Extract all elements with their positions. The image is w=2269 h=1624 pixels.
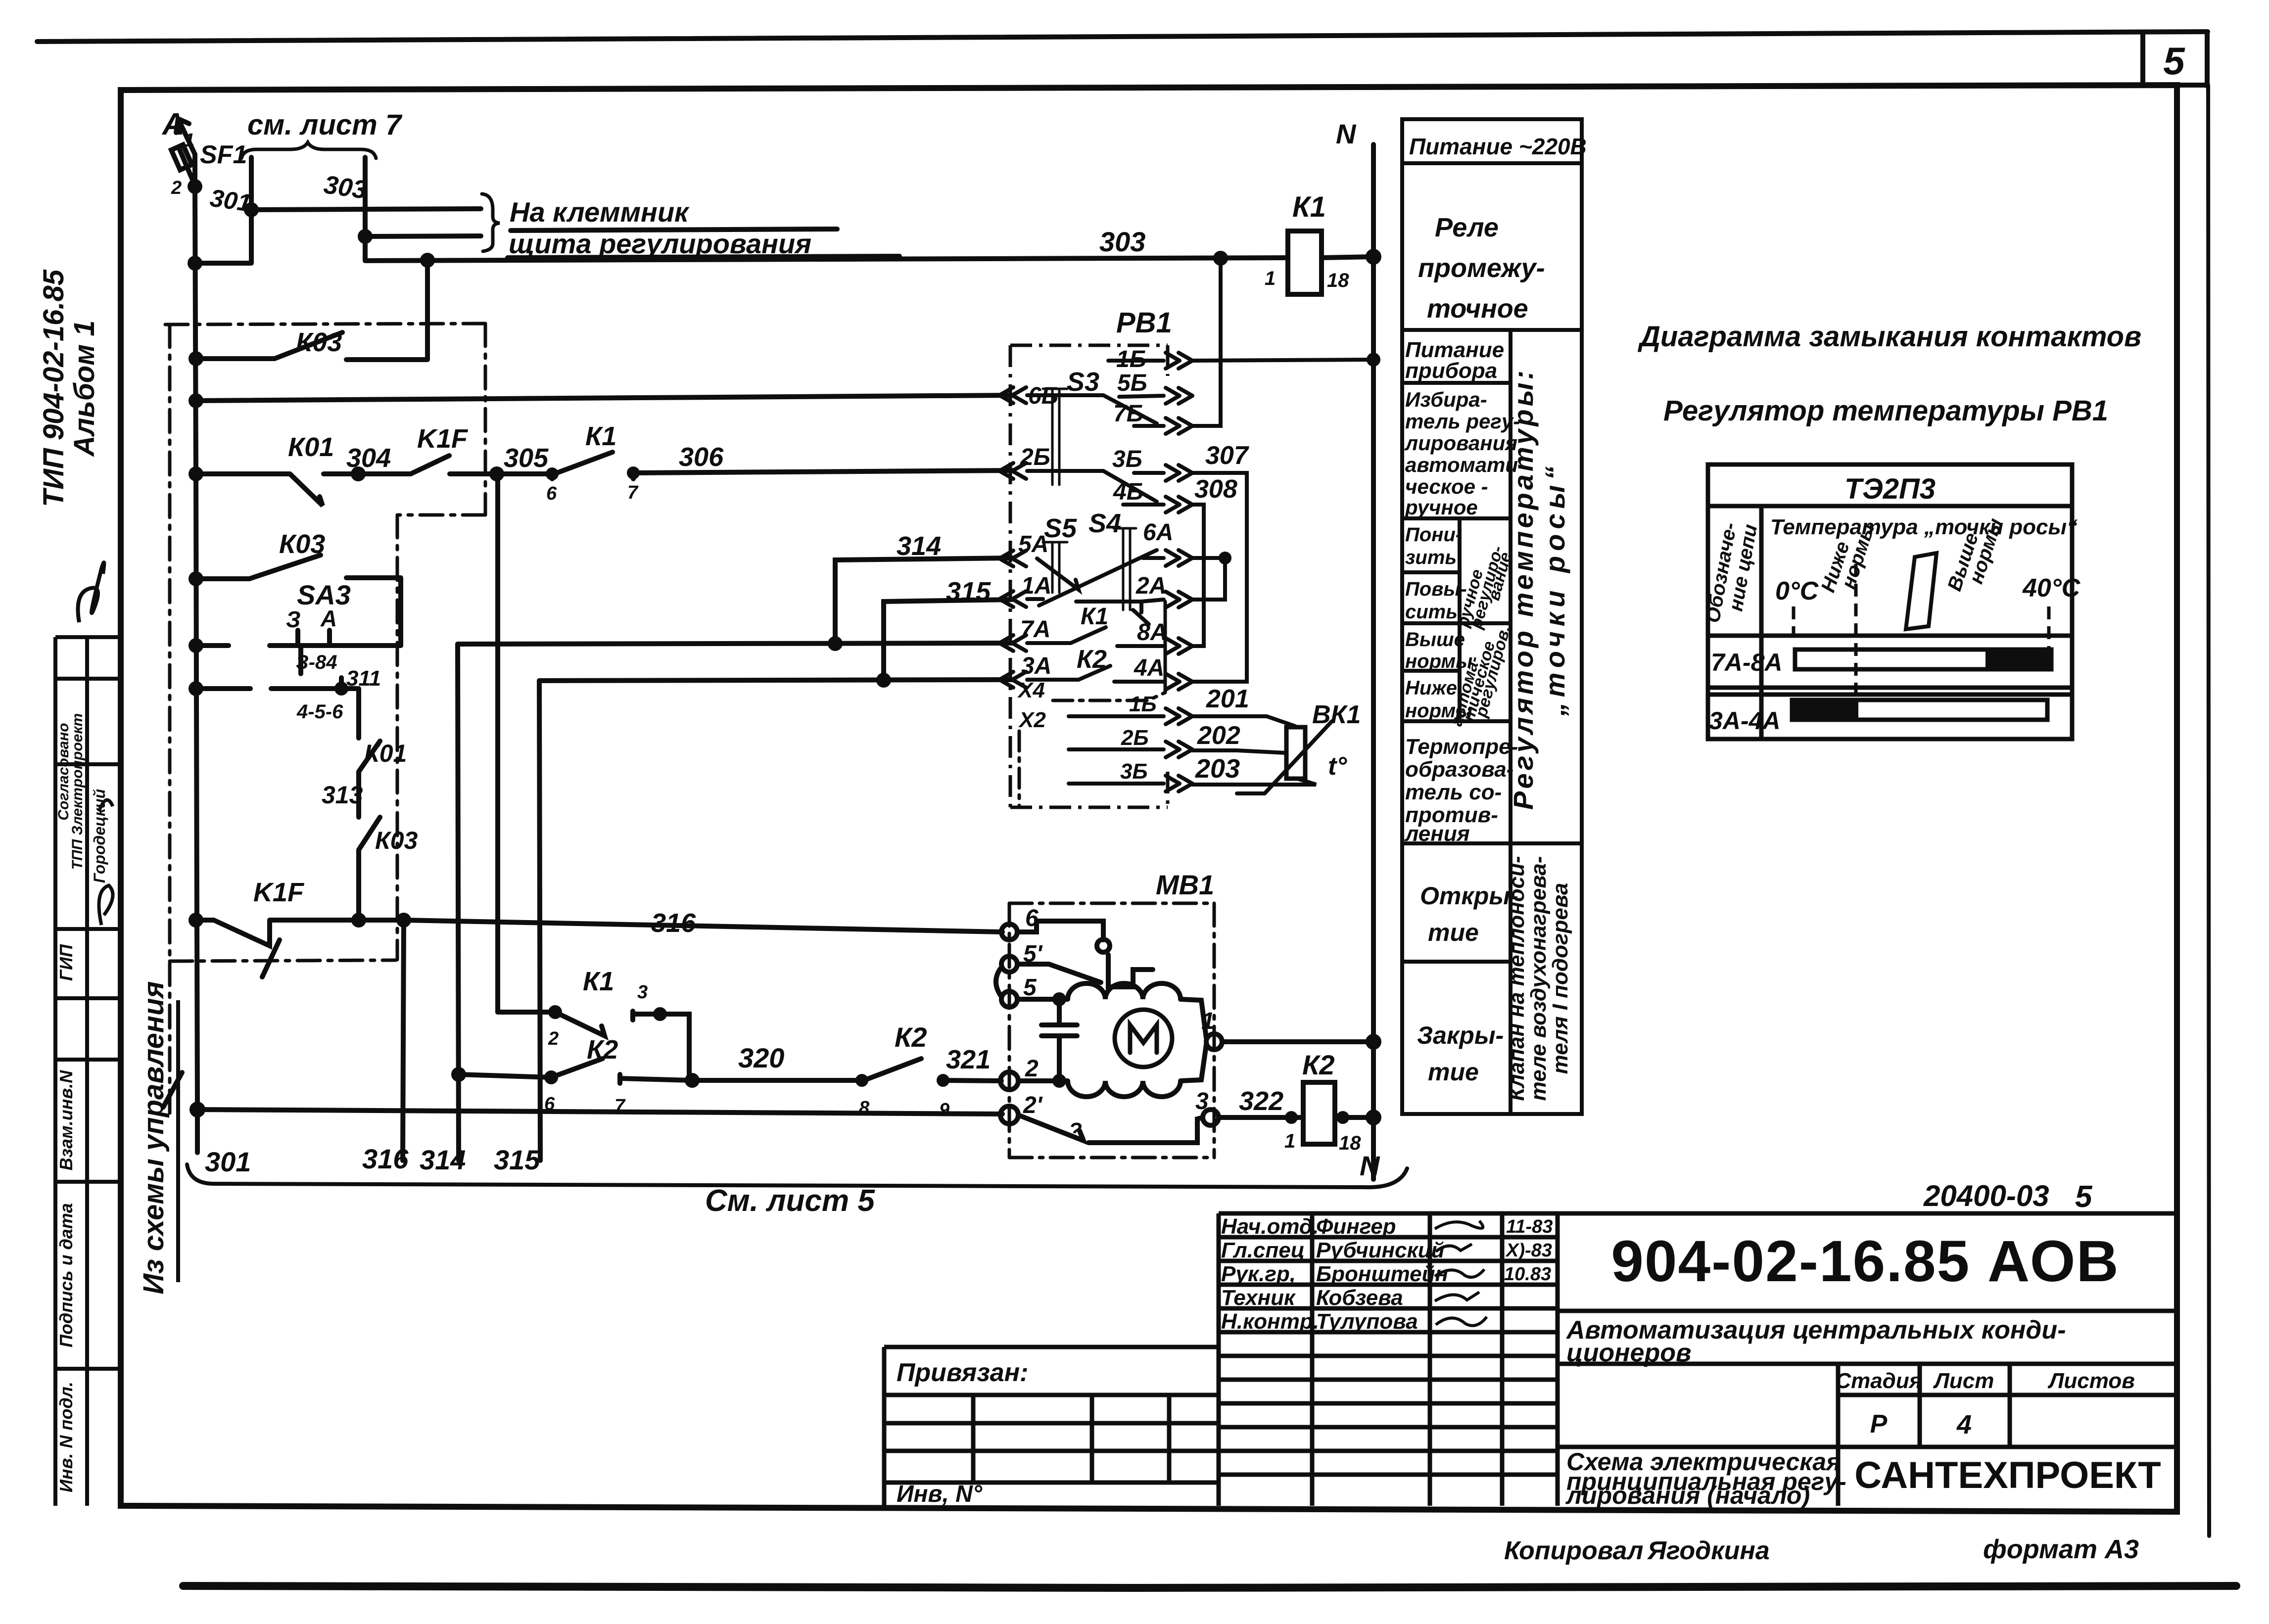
- motor M: [1115, 1010, 1172, 1067]
- svg-text:тель регу-: тель регу-: [1405, 410, 1520, 433]
- svg-text:306: 306: [679, 442, 724, 472]
- switch lower section of S3: [1027, 471, 1164, 505]
- svg-text:313: 313: [322, 781, 363, 809]
- winding upper: [1017, 983, 1206, 1038]
- rotated note: Из схемы управления: [138, 981, 178, 1294]
- underline wire for annotation line1: [511, 229, 837, 231]
- svg-text:202: 202: [1197, 721, 1240, 750]
- svg-text:N: N: [1360, 1150, 1380, 1181]
- wire terminal1 to N: [1222, 1039, 1373, 1044]
- left stamp signature scribbles: [99, 800, 113, 925]
- svg-text:Инв. N подл.: Инв. N подл.: [56, 1382, 76, 1492]
- svg-text:прибора: прибора: [1405, 359, 1497, 383]
- names column texts: [1221, 1214, 1448, 1334]
- svg-text:А: А: [320, 605, 337, 631]
- svg-text:Городецкий: Городецкий: [91, 789, 108, 883]
- svg-text:тие: тие: [1428, 919, 1479, 946]
- external loop 6А-2А: [1192, 558, 1225, 600]
- sheet number box top-right: [2143, 32, 2207, 86]
- connector X4 dash-dot: [1053, 693, 1165, 700]
- svg-text:322: 322: [1239, 1086, 1283, 1116]
- svg-text:315: 315: [946, 577, 991, 606]
- svg-text:Термопре-: Термопре-: [1405, 735, 1518, 759]
- terminal 3: [1203, 1110, 1219, 1125]
- contact K1F on lower wire: [196, 920, 404, 946]
- svg-text:5Б: 5Б: [1117, 370, 1147, 396]
- left margin handwriting scribble: [78, 562, 104, 622]
- svg-text:промежу-: промежу-: [1418, 253, 1545, 283]
- svg-text:8: 8: [859, 1098, 870, 1118]
- bottom return wire to MV1: [197, 1110, 1002, 1114]
- svg-text:К2: К2: [587, 1035, 618, 1065]
- svg-text:Закры-: Закры-: [1417, 1021, 1504, 1049]
- PB1 right terminal arrow: [1166, 742, 1192, 757]
- svg-text:См. лист 5: См. лист 5: [705, 1184, 875, 1218]
- svg-text:314: 314: [420, 1144, 466, 1175]
- svg-text:ВК1: ВК1: [1312, 700, 1361, 729]
- svg-text:Х4: Х4: [1017, 678, 1045, 702]
- svg-text:311: 311: [346, 666, 381, 691]
- contact K03 (1): [196, 261, 427, 360]
- svg-text:1: 1: [1284, 1130, 1295, 1152]
- drawing frame: [121, 85, 2177, 1512]
- external loop 307 (3Б-4А): [1192, 473, 1247, 682]
- axis ticks: [1794, 564, 2049, 722]
- svg-text:6А: 6А: [1143, 519, 1173, 546]
- svg-text:На клеммник: На клеммник: [510, 196, 690, 228]
- svg-text:Регулятор температуры:: Регулятор температуры:: [1508, 368, 1539, 810]
- changeover blade 1А-6А: [1039, 550, 1157, 605]
- PB1 right terminal arrow: [1166, 497, 1192, 512]
- PB1 right terminal arrow: [1166, 353, 1192, 369]
- winding lower: [1018, 1045, 1206, 1097]
- PB1 left terminal arrow: [999, 463, 1026, 479]
- svg-text:t°: t°: [1328, 752, 1347, 781]
- PB1 right terminal arrow: [1166, 418, 1192, 434]
- blade S4 to 8А: [1133, 610, 1149, 624]
- svg-text:3А: 3А: [1021, 653, 1051, 679]
- svg-text:Избира-: Избира-: [1405, 388, 1487, 411]
- svg-text:Н.контр.: Н.контр.: [1221, 1309, 1319, 1334]
- wire 304 with contact K01: [196, 474, 411, 506]
- svg-text:8А: 8А: [1137, 619, 1167, 646]
- svg-text:Диаграмма замыкания контактов: Диаграмма замыкания контактов: [1637, 321, 2141, 353]
- terminal 5: [1001, 991, 1017, 1007]
- underline wire for annotation line2: [508, 256, 899, 258]
- svg-text:Бронштейн: Бронштейн: [1316, 1262, 1448, 1286]
- svg-text:К2: К2: [895, 1021, 927, 1053]
- motor block MV1 dash-dot box: [1009, 903, 1214, 1158]
- page right border: [2208, 85, 2209, 1536]
- wire to terminal strip (upper): [251, 209, 481, 210]
- wire to contact K2 (lower chain): [459, 1059, 692, 1083]
- svg-text:3Б: 3Б: [1120, 759, 1148, 784]
- svg-text:Техник: Техник: [1221, 1286, 1296, 1310]
- wire 320: [692, 1078, 862, 1083]
- PB1 left terminal arrow: [999, 672, 1026, 688]
- svg-text:ТЭ2П3: ТЭ2П3: [1844, 473, 1936, 505]
- external wire 1Б to N: [1192, 360, 1373, 361]
- PB1 left terminal arrow: [999, 591, 1026, 607]
- svg-text:ручное: ручное: [1405, 496, 1478, 519]
- svg-text:308: 308: [1194, 475, 1237, 504]
- svg-text:образова-: образова-: [1405, 757, 1513, 782]
- svg-text:К1: К1: [1292, 191, 1326, 223]
- terminal 6: [1001, 924, 1017, 940]
- svg-text:теле воздухонагрева-: теле воздухонагрева-: [1526, 856, 1551, 1101]
- svg-text:18: 18: [1327, 270, 1349, 291]
- svg-text:304: 304: [346, 443, 391, 473]
- title block grid: [1219, 1213, 2177, 1506]
- svg-text:7А: 7А: [1020, 616, 1050, 643]
- svg-text:315: 315: [494, 1144, 540, 1175]
- rotated column: regulator name: [1508, 368, 1570, 810]
- svg-text:2': 2': [1023, 1092, 1043, 1118]
- svg-text:3: 3: [1195, 1088, 1209, 1114]
- wire 203: [1192, 779, 1316, 785]
- contact at terminal 2': [1018, 1115, 1203, 1143]
- svg-text:303: 303: [322, 170, 369, 205]
- svg-text:Х)-83: Х)-83: [1505, 1240, 1552, 1261]
- svg-text:теля I подогрева: теля I подогрева: [1548, 883, 1572, 1074]
- svg-text:К01: К01: [288, 432, 334, 462]
- PB1 right terminal arrow: [1166, 776, 1192, 791]
- contact K1 inside PB1: [1027, 627, 1164, 646]
- rotated sub captions (manual/auto): [1447, 544, 1515, 728]
- svg-text:К01: К01: [364, 740, 407, 767]
- svg-text:ТПП Злектропроект: ТПП Злектропроект: [69, 713, 86, 870]
- svg-text:314: 314: [897, 531, 941, 561]
- wire 202: [1192, 750, 1285, 753]
- dash-dot panel boundary bottom with slash: [170, 960, 396, 961]
- page top line: [37, 32, 2208, 42]
- svg-text:4Б: 4Б: [1113, 479, 1143, 505]
- svg-text:Подпись и дата: Подпись и дата: [56, 1203, 76, 1347]
- svg-text:301: 301: [208, 184, 253, 217]
- svg-text:6: 6: [1025, 905, 1039, 931]
- setpoint parallelogram: [1906, 553, 1937, 629]
- external loop 308 (4Б-8А): [1192, 505, 1204, 646]
- svg-text:301: 301: [205, 1146, 251, 1177]
- heavy page bottom line: [183, 1586, 2236, 1588]
- contact K03 (vertical): [359, 817, 380, 920]
- svg-text:К2: К2: [1077, 645, 1107, 674]
- svg-text:Повы-: Повы-: [1405, 578, 1467, 600]
- linked box: [884, 1347, 1219, 1506]
- svg-text:К1: К1: [585, 421, 616, 451]
- svg-text:5: 5: [2075, 1180, 2093, 1214]
- svg-text:3Б: 3Б: [1112, 446, 1142, 472]
- terminal 1: [1206, 1034, 1222, 1050]
- svg-text:S3: S3: [1067, 367, 1099, 397]
- svg-text:7: 7: [615, 1096, 626, 1116]
- svg-text:Тулупова: Тулупова: [1316, 1309, 1418, 1334]
- contact K2 inside PB1: [1027, 666, 1164, 682]
- svg-text:1: 1: [184, 130, 194, 151]
- external link 7Б to wire 303: [1192, 258, 1221, 426]
- right signal table grid: [1402, 119, 1582, 1114]
- svg-text:1: 1: [1265, 268, 1276, 289]
- wire 311: [196, 678, 359, 738]
- wire 3А: [539, 680, 1012, 681]
- PB1 right terminal arrow: [1166, 708, 1192, 724]
- svg-text:Температура „точки росы“: Температура „точки росы“: [1770, 515, 2078, 539]
- svg-text:11-83: 11-83: [1506, 1216, 1553, 1237]
- junction bus loop: [190, 258, 200, 268]
- svg-text:7: 7: [627, 482, 639, 503]
- junction 303/PB1 riser: [1216, 253, 1226, 263]
- svg-text:Реле: Реле: [1435, 213, 1499, 242]
- junction 303/K03: [423, 255, 432, 265]
- neutral line N: [1371, 144, 1376, 1179]
- svg-text:Регулятор температуры РВ1: Регулятор температуры РВ1: [1663, 395, 2108, 427]
- svg-text:щита регулирования: щита регулирования: [509, 228, 811, 259]
- brace to annotation: [482, 194, 500, 251]
- svg-text:РВ1: РВ1: [1116, 307, 1172, 339]
- wire 314 upper: [835, 558, 1012, 644]
- svg-text:A: A: [161, 107, 185, 141]
- left stamp column grid: [55, 637, 121, 1506]
- wire 322: [1219, 1115, 1303, 1120]
- contact K2 on wire 320/321: [862, 1059, 1001, 1084]
- wire 6Б to PB1: [196, 395, 1012, 401]
- svg-text:Альбом 1: Альбом 1: [68, 320, 100, 457]
- svg-text:зить: зить: [1405, 547, 1457, 568]
- svg-text:Листов: Листов: [2047, 1369, 2135, 1393]
- svg-text:?: ?: [1069, 1118, 1082, 1143]
- wire to terminal strip (lower): [365, 236, 481, 236]
- svg-text:Ниже: Ниже: [1405, 677, 1457, 699]
- svg-text:2: 2: [1025, 1056, 1039, 1082]
- terminal 5': [1001, 956, 1017, 972]
- signature scribbles: [1435, 1221, 1487, 1326]
- svg-text:7Б: 7Б: [1113, 401, 1143, 427]
- svg-text:Откры-: Откры-: [1420, 882, 1518, 910]
- svg-text:1: 1: [1201, 1008, 1215, 1034]
- wire 201: [1192, 716, 1295, 726]
- bus 314 lower: [458, 644, 459, 1160]
- svg-text:3А-4А: 3А-4А: [1709, 707, 1780, 735]
- svg-text:Из схемы управления: Из схемы управления: [138, 981, 170, 1294]
- svg-text:Х2: Х2: [1018, 708, 1046, 732]
- wire to contact K1 (lower chain): [498, 1011, 689, 1080]
- svg-text:формат А3: формат А3: [1983, 1534, 2139, 1564]
- svg-text:Фингер: Фингер: [1316, 1214, 1396, 1239]
- svg-text:203: 203: [1195, 754, 1240, 784]
- svg-text:К03: К03: [279, 529, 325, 559]
- wire 316 to MV1: [404, 920, 1002, 932]
- PB1 right terminal arrow: [1166, 465, 1192, 481]
- svg-text:6: 6: [546, 483, 557, 504]
- svg-text:Копировал: Копировал: [1504, 1536, 1643, 1565]
- svg-text:З: З: [286, 606, 301, 632]
- svg-text:Взам.инв.N: Взам.инв.N: [56, 1070, 76, 1171]
- svg-text:201: 201: [1206, 685, 1249, 713]
- wire bus 301 vertical: [195, 154, 197, 1153]
- svg-text:К1: К1: [1081, 603, 1108, 630]
- svg-text:Выше: Выше: [1405, 629, 1465, 650]
- svg-text:Лист: Лист: [1933, 1369, 1994, 1393]
- svg-text:S5: S5: [1044, 513, 1077, 543]
- svg-text:307: 307: [1205, 441, 1249, 470]
- svg-text:Клапан на теплоноси-: Клапан на теплоноси-: [1505, 856, 1529, 1101]
- PB1 right terminal arrow: [1166, 550, 1192, 566]
- riser 305 chain: [495, 474, 500, 1012]
- svg-text:5: 5: [2163, 39, 2185, 83]
- PB1 left terminal arrow: [999, 551, 1026, 566]
- svg-text:Питание ~220В: Питание ~220В: [1409, 134, 1587, 159]
- svg-text:Привязан:: Привязан:: [897, 1358, 1028, 1387]
- svg-text:лирования: лирования: [1404, 431, 1517, 455]
- svg-text:321: 321: [946, 1045, 991, 1074]
- wire 303 riser right: [363, 157, 368, 261]
- wire 2А: [1076, 600, 1164, 612]
- svg-text:ГИП: ГИП: [56, 944, 76, 981]
- svg-text:2А: 2А: [1135, 573, 1166, 599]
- svg-text:ТИП 904-02-16.85: ТИП 904-02-16.85: [38, 269, 70, 507]
- svg-text:З-84: З-84: [296, 651, 337, 673]
- switch S4: [1114, 528, 1136, 610]
- svg-text:2: 2: [171, 178, 182, 198]
- contact K1F (upper): [411, 456, 549, 474]
- bus 315 lower: [539, 681, 540, 1160]
- svg-text:Рук.гр,: Рук.гр,: [1221, 1262, 1296, 1286]
- svg-text:1А: 1А: [1021, 573, 1051, 599]
- svg-text:см. лист 7: см. лист 7: [247, 109, 403, 141]
- svg-text:Р: Р: [1870, 1410, 1888, 1438]
- PB1 right terminal arrow: [1166, 388, 1192, 404]
- contact K03 (2): [196, 555, 401, 646]
- svg-text:4: 4: [1956, 1410, 1972, 1439]
- svg-text:5: 5: [1023, 974, 1037, 1001]
- wire 303 riser left: [195, 157, 251, 263]
- svg-text:18: 18: [1339, 1132, 1361, 1154]
- resistance thermometer BK1: [1286, 727, 1305, 779]
- svg-text:5': 5': [1023, 941, 1043, 967]
- node 305: [492, 469, 502, 479]
- svg-text:20400-03: 20400-03: [1923, 1179, 2049, 1212]
- svg-text:K1F: K1F: [417, 424, 469, 454]
- wire 303 horizontal to relay K1: [365, 258, 1288, 261]
- svg-text:ческое -: ческое -: [1405, 475, 1488, 498]
- svg-text:904-02-16.85 АОВ: 904-02-16.85 АОВ: [1611, 1229, 2119, 1294]
- svg-text:Гл.спец: Гл.спец: [1221, 1238, 1305, 1262]
- svg-text:1Б: 1Б: [1129, 692, 1157, 716]
- PB1 right terminal arrow: [1166, 638, 1192, 654]
- relay coil K1: [1288, 231, 1322, 294]
- svg-text:сить: сить: [1405, 601, 1458, 623]
- svg-text:9: 9: [939, 1100, 949, 1120]
- svg-text:Нач.отд.: Нач.отд.: [1221, 1214, 1319, 1239]
- right table captions: [1404, 134, 1587, 1086]
- svg-text:4А: 4А: [1134, 655, 1164, 681]
- svg-text:2Б: 2Б: [1020, 444, 1050, 470]
- svg-text:K1F: K1F: [253, 878, 305, 907]
- contact bar 3А-4А: [1792, 700, 2047, 720]
- svg-text:К2: К2: [1302, 1049, 1335, 1080]
- svg-text:Рубчинский: Рубчинский: [1316, 1238, 1445, 1262]
- svg-text:6: 6: [544, 1094, 555, 1114]
- connector X2 dash: [1018, 731, 1021, 806]
- svg-text:Пони-: Пони-: [1405, 524, 1462, 546]
- regulator PB1 dash-dot box: [1010, 345, 1168, 807]
- svg-text:САНТЕХПРОЕКТ: САНТЕХПРОЕКТ: [1854, 1454, 2161, 1496]
- svg-text:316: 316: [362, 1143, 409, 1174]
- PB1 right terminal arrow: [1166, 674, 1192, 690]
- svg-text:Стадия: Стадия: [1835, 1369, 1922, 1393]
- svg-text:320: 320: [738, 1042, 784, 1073]
- capacitor: [1041, 999, 1077, 1081]
- contact bar 7А-8А: [1795, 650, 2051, 669]
- svg-text:7А-8А: 7А-8А: [1711, 649, 1782, 676]
- svg-text:SF1: SF1: [200, 140, 247, 169]
- svg-text:Кобзева: Кобзева: [1316, 1286, 1403, 1310]
- left stamp rotated captions: [55, 713, 108, 1492]
- bus 316: [403, 920, 404, 1160]
- svg-text:К03: К03: [375, 827, 418, 854]
- brace see sheet 7: [241, 142, 376, 158]
- terminal 2': [1000, 1106, 1018, 1124]
- selector SA3: [298, 630, 330, 644]
- svg-text:N: N: [1336, 118, 1357, 149]
- svg-text:4-5-6: 4-5-6: [296, 701, 343, 723]
- PB1 left terminal arrow: [999, 387, 1026, 403]
- switch S5: [1043, 542, 1067, 593]
- svg-text:2: 2: [548, 1028, 559, 1049]
- centrifugal switch inside MV1: [1017, 921, 1103, 940]
- bottom terminal wires 1Б 2Б 3Б: [1069, 716, 1164, 784]
- svg-text:тие: тие: [1428, 1058, 1479, 1086]
- dash-dot panel boundary left: [168, 325, 172, 1115]
- breaker SF1: [179, 148, 195, 186]
- rotated column: valve name: [1505, 856, 1572, 1101]
- svg-text:2Б: 2Б: [1121, 726, 1149, 750]
- svg-text:1Б: 1Б: [1116, 346, 1146, 372]
- svg-text:Ягодкина: Ягодкина: [1647, 1536, 1770, 1565]
- svg-text:точное: точное: [1427, 294, 1528, 324]
- svg-text:К1: К1: [583, 967, 614, 996]
- contact K1 (6-7) on wire 306: [552, 452, 1012, 479]
- terminal 2: [1000, 1072, 1018, 1090]
- svg-text:ления: ления: [1404, 822, 1470, 846]
- table TE2P3: [1708, 464, 2072, 739]
- svg-text:лирования (начало): лирования (начало): [1565, 1482, 1810, 1509]
- contact K01 (vertical): [359, 741, 380, 817]
- wire 7А: [458, 643, 1012, 644]
- left margin rotated titles: [38, 269, 100, 507]
- PB1 left terminal arrow: [999, 635, 1026, 651]
- svg-text:„точки росы“: „точки росы“: [1539, 462, 1570, 717]
- svg-text:10.83: 10.83: [1504, 1264, 1551, 1285]
- svg-text:305: 305: [504, 443, 549, 473]
- svg-text:ционеров: ционеров: [1566, 1339, 1691, 1367]
- svg-text:МВ1: МВ1: [1156, 869, 1214, 900]
- svg-text:303: 303: [1099, 226, 1145, 257]
- svg-text:автомати-: автомати-: [1405, 453, 1525, 476]
- svg-text:6Б: 6Б: [1028, 383, 1058, 409]
- svg-text:Инв, N°: Инв, N°: [897, 1481, 983, 1507]
- svg-text:3: 3: [637, 982, 648, 1003]
- PB1 right terminal arrow: [1166, 592, 1192, 607]
- brace see sheet 5: [187, 1164, 1407, 1187]
- svg-text:40°С: 40°С: [2022, 574, 2081, 603]
- node A arrow (incoming feed): [176, 119, 195, 154]
- switch S3: [1027, 361, 1164, 426]
- wire 315 upper: [884, 600, 1012, 680]
- junction bus/SF1: [190, 182, 200, 191]
- svg-text:5А: 5А: [1018, 531, 1048, 557]
- relay coil K2: [1303, 1082, 1335, 1144]
